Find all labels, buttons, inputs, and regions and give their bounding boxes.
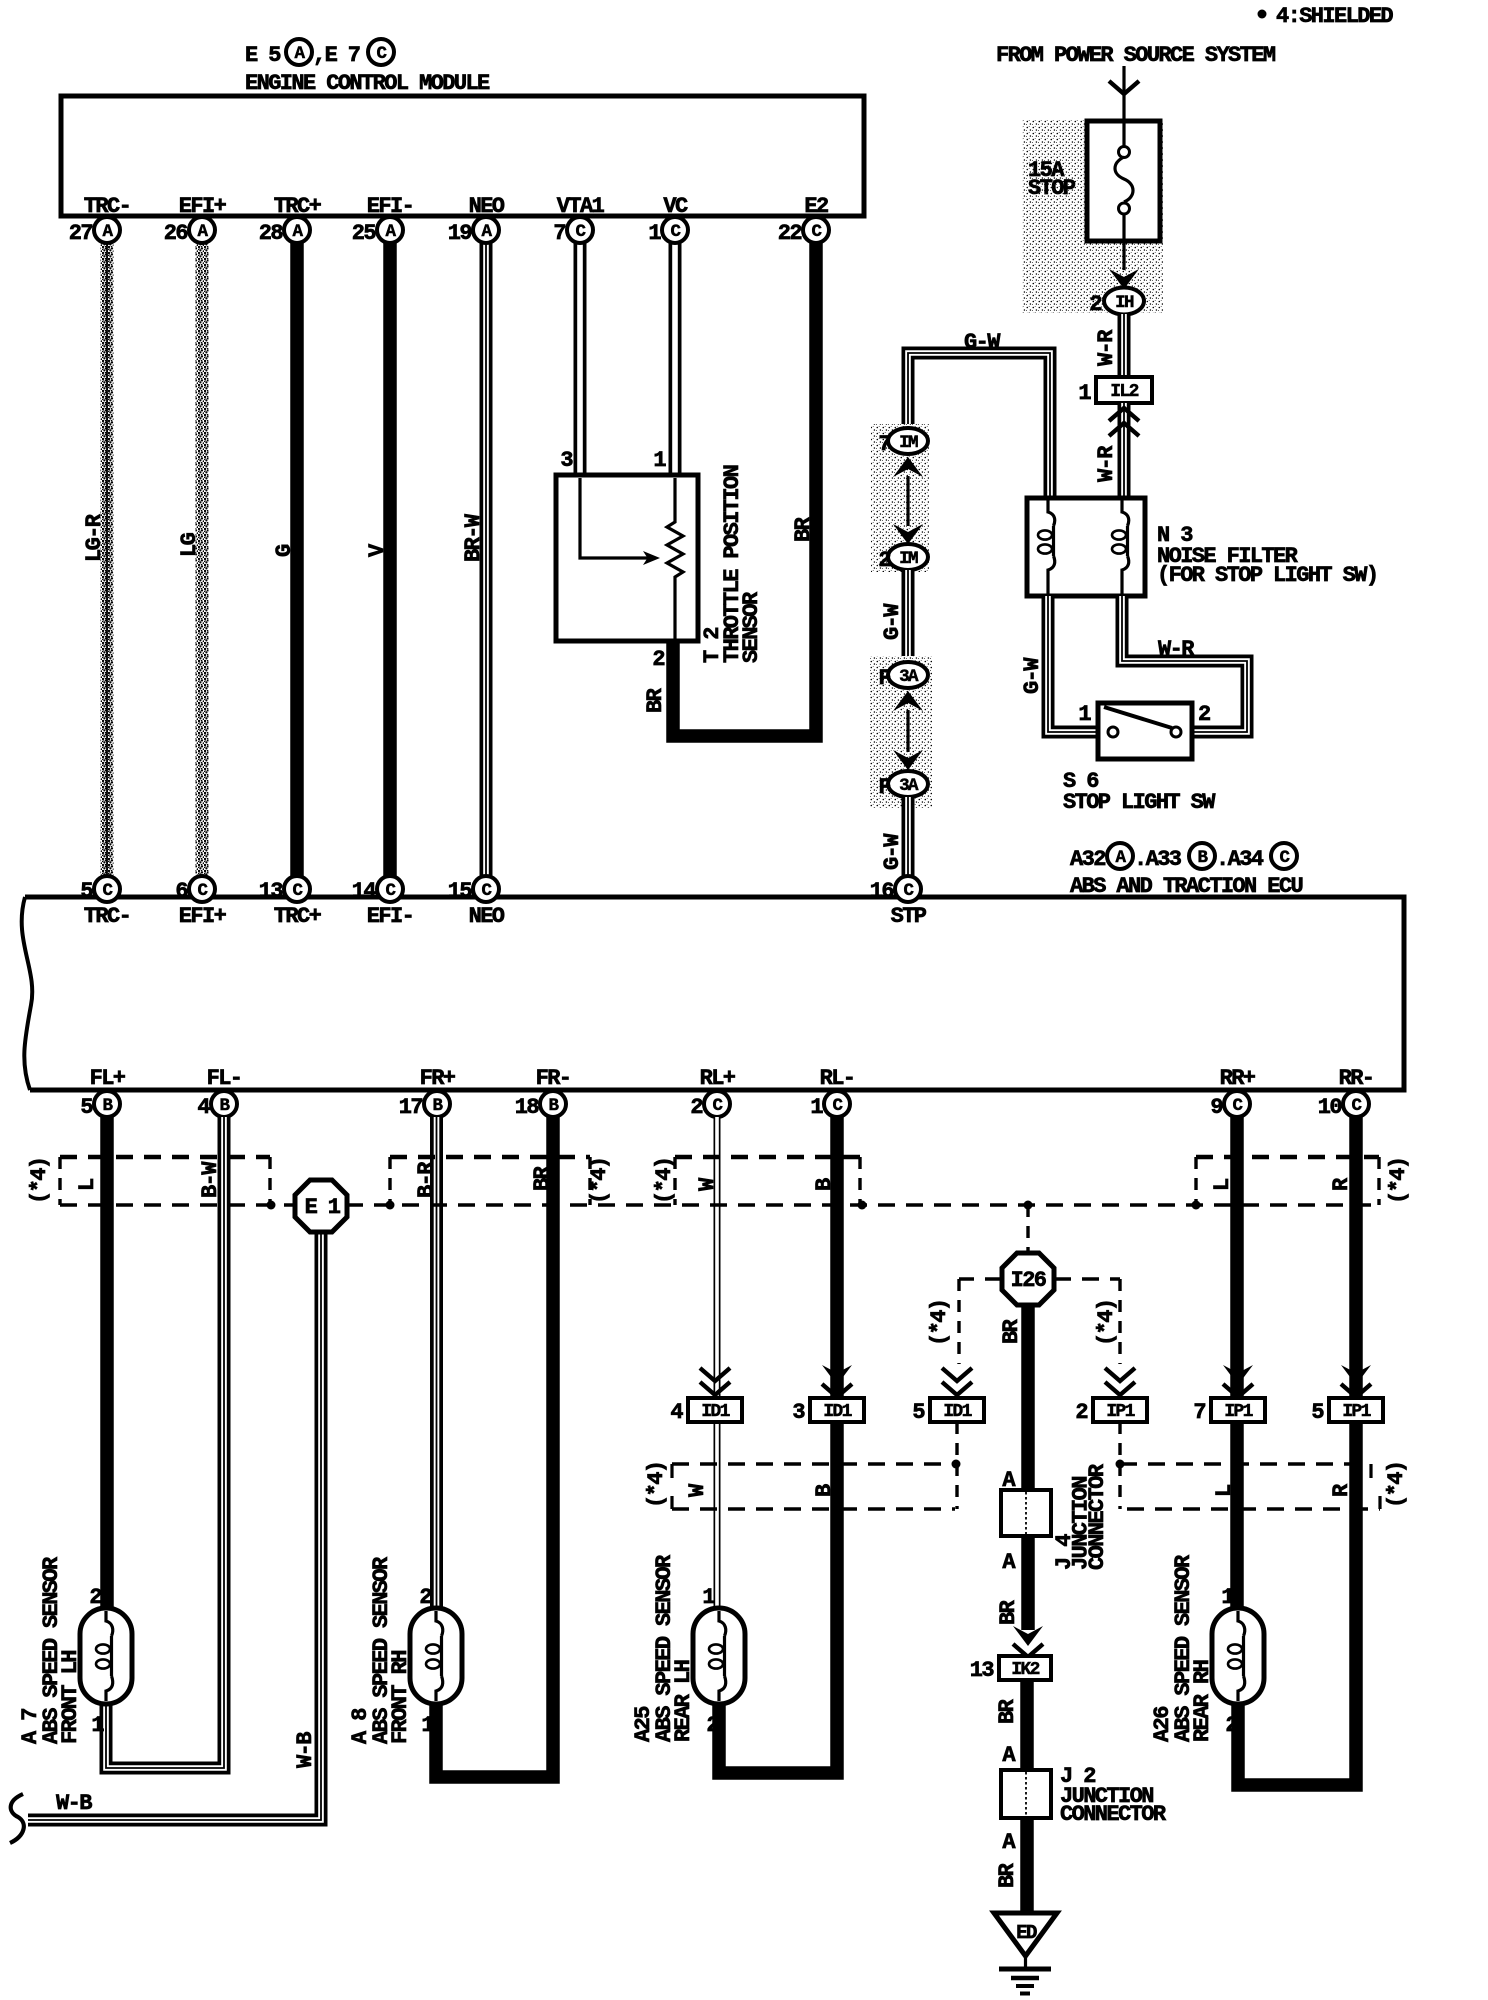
svg-text:LG-R: LG-R bbox=[82, 513, 107, 562]
ABS speed sensor A26 rear RH bbox=[1150, 1554, 1264, 1742]
svg-text:CONNECTOR: CONNECTOR bbox=[1085, 1463, 1110, 1570]
svg-text:BR-W: BR-W bbox=[461, 513, 486, 562]
svg-text:3A: 3A bbox=[899, 776, 919, 796]
svg-text:L: L bbox=[75, 1178, 100, 1191]
wire G-W 3A to STP pin 16 bbox=[880, 797, 908, 878]
svg-text:W-B: W-B bbox=[56, 1791, 92, 1816]
wire TRC- (LG-R halftone) bbox=[82, 236, 114, 878]
shield box (*4) around RL wires bbox=[652, 1157, 860, 1205]
svg-text:I26: I26 bbox=[1011, 1268, 1046, 1293]
junction dot bbox=[1192, 1201, 1201, 1210]
svg-text:RR+: RR+ bbox=[1220, 1066, 1256, 1091]
arrow above 5 IP1 bbox=[1341, 1365, 1371, 1397]
svg-text:2: 2 bbox=[878, 548, 890, 573]
svg-text:1: 1 bbox=[91, 1713, 104, 1738]
svg-text:3A: 3A bbox=[899, 667, 919, 687]
svg-text:.A34: .A34 bbox=[1216, 847, 1264, 872]
ABS ECU header label A32/A33/A34 bbox=[1070, 843, 1302, 899]
ECU top pin 5 C TRC- bbox=[80, 876, 130, 929]
junction dot bbox=[858, 1201, 867, 1210]
ABS speed sensor A7 front LH bbox=[18, 1556, 132, 1744]
svg-text:7: 7 bbox=[553, 221, 565, 246]
ECM pin 22 C E2 bbox=[778, 194, 829, 246]
wire RR- (R) ECU to A26 loop bbox=[1238, 1117, 1356, 1785]
svg-text:STOP LIGHT SW: STOP LIGHT SW bbox=[1063, 790, 1216, 815]
ECU bottom pin FL- 4 B bbox=[197, 1066, 241, 1120]
noise filter N3 box bbox=[1027, 498, 1377, 596]
connector 1 IL2 bbox=[1078, 377, 1152, 406]
svg-text:1: 1 bbox=[810, 1095, 823, 1120]
note 4:SHIELDED bbox=[1258, 4, 1394, 29]
wire BR I26 to J4 bbox=[999, 1305, 1028, 1490]
svg-text:16: 16 bbox=[870, 879, 894, 904]
svg-text:F: F bbox=[878, 666, 890, 691]
svg-text:FL-: FL- bbox=[207, 1066, 242, 1091]
ECU bottom pin RL- 1 C bbox=[810, 1066, 854, 1120]
svg-text:(*4): (*4) bbox=[587, 1158, 612, 1204]
svg-text:BR: BR bbox=[643, 687, 668, 713]
svg-text:STOP: STOP bbox=[1028, 176, 1076, 201]
svg-text:1: 1 bbox=[702, 1585, 715, 1610]
torn end of W-B wire bbox=[10, 1794, 24, 1843]
wire G-W IM to 3A bbox=[880, 570, 908, 663]
svg-text:19: 19 bbox=[448, 221, 472, 246]
svg-text:EFI+: EFI+ bbox=[179, 904, 227, 929]
wire FL+ (L) ECU to A7 bbox=[100, 1117, 114, 1610]
svg-text:W-R: W-R bbox=[1158, 637, 1195, 662]
svg-text:FR-: FR- bbox=[536, 1066, 571, 1091]
wire TRC+ (G) bbox=[272, 236, 297, 878]
wire G-W noise filter to stop light switch pin 1 bbox=[1020, 596, 1098, 732]
svg-text:2: 2 bbox=[1225, 1713, 1237, 1738]
lower shield dashed box left (*4) bbox=[644, 1422, 961, 1509]
svg-text:26: 26 bbox=[164, 221, 188, 246]
svg-text:IP1: IP1 bbox=[1342, 1402, 1371, 1422]
svg-text:(*4): (*4) bbox=[1094, 1300, 1119, 1346]
svg-text:27: 27 bbox=[69, 221, 93, 246]
ECM pin 1 C VC bbox=[648, 194, 688, 246]
connector 2 IP1 bbox=[1075, 1398, 1147, 1425]
ABS and traction ECU box bbox=[22, 897, 1404, 1090]
connector F 3A upper bbox=[878, 662, 928, 691]
N3 right coil bbox=[1122, 500, 1129, 526]
svg-text:3: 3 bbox=[560, 448, 573, 473]
svg-text:ENGINE CONTROL MODULE: ENGINE CONTROL MODULE bbox=[245, 71, 490, 96]
svg-text:ID1: ID1 bbox=[701, 1402, 730, 1422]
wire EFI+ (LG halftone) bbox=[177, 236, 209, 878]
svg-text:15: 15 bbox=[448, 879, 473, 904]
stop light switch S6 bbox=[1063, 702, 1216, 815]
svg-text:G-W: G-W bbox=[880, 833, 905, 870]
svg-text:G: G bbox=[272, 544, 297, 557]
svg-text:25: 25 bbox=[352, 221, 377, 246]
wire BR J4 to IK2 with arrow bbox=[996, 1536, 1043, 1657]
wire EFI- (V) bbox=[365, 236, 390, 878]
svg-text:6: 6 bbox=[175, 879, 187, 904]
shield box (*4) around FR wires bbox=[390, 1157, 612, 1205]
wire BR J2 to ED ground bbox=[995, 1818, 1027, 1911]
svg-text:FL+: FL+ bbox=[90, 1066, 126, 1091]
ECM pin 19 A NEO bbox=[448, 194, 505, 246]
ABS speed sensor A8 front RH bbox=[348, 1556, 462, 1744]
svg-text:18: 18 bbox=[515, 1095, 540, 1120]
svg-text:(*4): (*4) bbox=[27, 1158, 52, 1204]
ABS speed sensor A25 rear LH bbox=[631, 1554, 745, 1742]
svg-text:IM: IM bbox=[899, 433, 918, 453]
svg-text:1: 1 bbox=[1078, 381, 1091, 406]
svg-text:RL+: RL+ bbox=[700, 1066, 736, 1091]
svg-text:FRONT RH: FRONT RH bbox=[388, 1651, 413, 1744]
wire FL- (B-W) ECU to A7 loop bbox=[106, 1117, 224, 1768]
svg-text:2: 2 bbox=[89, 1585, 101, 1610]
svg-text:5: 5 bbox=[80, 1095, 93, 1120]
connector 2 IH bbox=[1089, 288, 1144, 318]
arrow above 3 ID1 bbox=[822, 1365, 852, 1397]
svg-text:BR: BR bbox=[995, 1698, 1020, 1724]
svg-text:A32: A32 bbox=[1070, 847, 1105, 872]
wire from power source with arrow bbox=[1109, 66, 1139, 121]
svg-text:5: 5 bbox=[912, 1400, 925, 1425]
svg-text:2: 2 bbox=[1198, 702, 1210, 727]
svg-text:LG: LG bbox=[177, 532, 202, 557]
svg-text:F: F bbox=[878, 775, 890, 800]
wire W-R IH to IL2 bbox=[1094, 314, 1124, 377]
connector 7 IP1 bbox=[1193, 1398, 1265, 1425]
ECU bottom pin RR+ 9 C bbox=[1210, 1066, 1255, 1120]
wire FR+ (B-R) ECU to A8 bbox=[430, 1117, 443, 1610]
wire fuse to IH connector bbox=[1109, 241, 1139, 289]
svg-text:IP1: IP1 bbox=[1106, 1402, 1135, 1422]
shield dashed from I26 to 2 IP1 bbox=[1054, 1279, 1135, 1395]
connector 5 ID1 bbox=[912, 1398, 984, 1425]
svg-text:RR-: RR- bbox=[1339, 1066, 1374, 1091]
connector 2 IM bbox=[878, 544, 928, 573]
connector 13 IK2 bbox=[970, 1656, 1051, 1683]
svg-text:9: 9 bbox=[1210, 1095, 1222, 1120]
svg-text:FR+: FR+ bbox=[420, 1066, 456, 1091]
wire FR- (BR) ECU to A8 loop bbox=[436, 1117, 553, 1777]
svg-text:10: 10 bbox=[1318, 1095, 1342, 1120]
svg-text:3: 3 bbox=[792, 1400, 805, 1425]
ECU top pin 15 C NEO bbox=[448, 876, 505, 929]
svg-text:(*4): (*4) bbox=[1384, 1462, 1409, 1508]
svg-text:(*4): (*4) bbox=[652, 1158, 677, 1204]
svg-text:B-W: B-W bbox=[198, 1161, 223, 1198]
throttle position sensor T2 box bbox=[556, 448, 764, 663]
svg-text:IL2: IL2 bbox=[1110, 382, 1138, 402]
svg-text:IK2: IK2 bbox=[1011, 1660, 1039, 1680]
stipple region around 15A STOP fuse bbox=[1022, 119, 1163, 313]
stipple region behind IM connectors bbox=[871, 424, 929, 572]
connector 7 IM bbox=[878, 428, 928, 457]
svg-text:13: 13 bbox=[259, 879, 284, 904]
svg-text:FROM POWER SOURCE SYSTEM: FROM POWER SOURCE SYSTEM bbox=[996, 43, 1276, 68]
svg-text:2: 2 bbox=[1075, 1400, 1087, 1425]
svg-text:2: 2 bbox=[706, 1713, 718, 1738]
lower shield dashed box right (*4) bbox=[1116, 1422, 1410, 1509]
arrow above 7 IP1 bbox=[1223, 1365, 1253, 1397]
svg-text:G-W: G-W bbox=[880, 603, 905, 640]
connector pair arrows IM bbox=[893, 457, 923, 544]
svg-text:1: 1 bbox=[653, 448, 666, 473]
svg-text:B-R: B-R bbox=[414, 1161, 439, 1198]
chevrons above 4 ID1 bbox=[700, 1368, 730, 1395]
svg-text:REAR RH: REAR RH bbox=[1190, 1660, 1215, 1742]
svg-text:(FOR STOP LIGHT SW): (FOR STOP LIGHT SW) bbox=[1157, 563, 1377, 588]
svg-text:ID1: ID1 bbox=[823, 1402, 852, 1422]
svg-text:5: 5 bbox=[1311, 1400, 1324, 1425]
svg-text:4: 4 bbox=[197, 1095, 210, 1120]
svg-text:NEO: NEO bbox=[469, 904, 505, 929]
junction dot bbox=[1024, 1201, 1033, 1210]
svg-text:17: 17 bbox=[399, 1095, 423, 1120]
ECM pin 7 C VTA1 bbox=[553, 194, 604, 246]
svg-text:ID1: ID1 bbox=[943, 1402, 972, 1422]
svg-text:BR: BR bbox=[791, 516, 816, 542]
ECU bottom pin FL+ 5 B bbox=[80, 1066, 125, 1120]
svg-text:IH: IH bbox=[1115, 293, 1134, 313]
svg-text:(*4): (*4) bbox=[927, 1300, 952, 1346]
svg-text:L: L bbox=[1212, 1484, 1237, 1497]
wire W-B from E1 ground point bbox=[28, 1232, 321, 1820]
svg-text:.A33: .A33 bbox=[1134, 847, 1182, 872]
svg-text:W-R: W-R bbox=[1094, 329, 1119, 366]
svg-text:13: 13 bbox=[970, 1658, 995, 1683]
svg-text:W-B: W-B bbox=[293, 1732, 318, 1768]
wire RL+ (W) ECU to A25 bbox=[714, 1117, 721, 1610]
svg-text:7: 7 bbox=[878, 432, 890, 457]
ECM pin 25 A EFI- bbox=[352, 194, 413, 246]
svg-text:SENSOR: SENSOR bbox=[739, 591, 764, 663]
svg-text:TRC-: TRC- bbox=[84, 904, 130, 929]
svg-text:REAR LH: REAR LH bbox=[671, 1660, 696, 1742]
wire NEO (BR-W) bbox=[461, 236, 486, 878]
ECM box ENGINE CONTROL MODULE bbox=[61, 96, 864, 216]
svg-text:(*4): (*4) bbox=[644, 1462, 669, 1508]
svg-text:TRC+: TRC+ bbox=[274, 904, 322, 929]
svg-text:2: 2 bbox=[1089, 292, 1101, 317]
junction connector J2 bbox=[1001, 1764, 1167, 1827]
svg-text:IM: IM bbox=[899, 549, 918, 569]
wire RR+ (L) ECU to A26 bbox=[1230, 1117, 1244, 1610]
svg-text:STP: STP bbox=[891, 904, 927, 929]
svg-text:RL-: RL- bbox=[820, 1066, 855, 1091]
ground ED bbox=[994, 1913, 1057, 1994]
stipple region behind 3A connectors bbox=[870, 656, 932, 808]
wire VC (L-R) bbox=[650, 236, 675, 547]
svg-text:4: 4 bbox=[670, 1400, 683, 1425]
svg-text:2: 2 bbox=[652, 647, 664, 672]
fuse 15A STOP bbox=[1028, 121, 1160, 241]
svg-text:E 1: E 1 bbox=[305, 1195, 341, 1220]
ECU top pin 13 C TRC+ bbox=[259, 876, 322, 929]
ECU bottom pin RL+ 2 C bbox=[690, 1066, 735, 1120]
svg-text:B: B bbox=[812, 1484, 837, 1497]
ECU top pin 14 C EFI- bbox=[352, 876, 413, 929]
shield box (*4) around RR wires bbox=[1196, 1157, 1411, 1205]
svg-text:1: 1 bbox=[421, 1713, 434, 1738]
svg-text:4:SHIELDED: 4:SHIELDED bbox=[1276, 4, 1393, 29]
svg-text:28: 28 bbox=[259, 221, 284, 246]
connector F 3A lower bbox=[878, 771, 928, 800]
svg-text:IP1: IP1 bbox=[1224, 1402, 1253, 1422]
svg-text:BR: BR bbox=[999, 1318, 1024, 1344]
svg-text:G-W: G-W bbox=[964, 330, 1001, 355]
shield dashed from I26 to 5 ID1 bbox=[927, 1279, 1002, 1395]
svg-text:G-W: G-W bbox=[1020, 657, 1045, 694]
ECM pin 27 A TRC- bbox=[69, 194, 130, 246]
svg-text:L: L bbox=[1210, 1178, 1235, 1191]
wire E2 (BR) to throttle sensor pin 2 bbox=[643, 236, 816, 736]
ECU top pin 6 C EFI+ bbox=[175, 876, 226, 929]
shield box (*4) around FL wires bbox=[27, 1157, 270, 1205]
wire VTA1 (B-Y) bbox=[555, 236, 580, 547]
svg-text:2: 2 bbox=[419, 1585, 431, 1610]
ground point E1 octagon bbox=[295, 1180, 347, 1232]
wire G-W from STP pin up and over to noise filter bbox=[908, 330, 1050, 498]
wire W-R noise filter to stop light switch pin 2 bbox=[1122, 596, 1247, 732]
svg-text:FRONT LH: FRONT LH bbox=[58, 1651, 83, 1744]
svg-text:W-R: W-R bbox=[1094, 445, 1119, 482]
svg-text:ED: ED bbox=[1016, 1922, 1037, 1944]
N3 left coil bbox=[1048, 500, 1055, 526]
ECU bottom pin FR- 18 B bbox=[515, 1066, 571, 1120]
junction connector J4 bbox=[1001, 1463, 1110, 1575]
svg-text:B: B bbox=[812, 1178, 837, 1191]
svg-text:1: 1 bbox=[648, 221, 661, 246]
ECM pin 28 A TRC+ bbox=[259, 194, 322, 246]
wire W-R IL2 to noise filter with chevrons bbox=[1094, 403, 1139, 498]
connector I26 octagon bbox=[1002, 1205, 1054, 1305]
junction dot bbox=[386, 1201, 395, 1210]
svg-text:,E 7: ,E 7 bbox=[313, 43, 360, 68]
svg-text:BR: BR bbox=[530, 1165, 555, 1191]
svg-text:5: 5 bbox=[80, 879, 93, 904]
svg-text:(*4): (*4) bbox=[1386, 1158, 1411, 1204]
shield drain dashed bus to E1 and I26 bbox=[60, 1203, 1379, 1206]
T2 internal wiper line from pin 3 bbox=[580, 478, 648, 558]
ECU top pin 16 C STP bbox=[870, 876, 927, 929]
wire RL- (B) ECU to A25 loop bbox=[719, 1117, 837, 1773]
svg-text:1: 1 bbox=[1221, 1585, 1234, 1610]
wire BR IK2 to J2 bbox=[995, 1680, 1027, 1770]
ECU bottom pin FR+ 17 B bbox=[399, 1066, 456, 1120]
T2 internal potentiometer resistor bbox=[667, 478, 683, 641]
svg-text:E 5: E 5 bbox=[245, 43, 281, 68]
svg-text:BR: BR bbox=[995, 1862, 1020, 1888]
svg-text:EFI-: EFI- bbox=[367, 904, 413, 929]
svg-text:BR: BR bbox=[996, 1599, 1021, 1625]
ECM header label E5/E7 bbox=[245, 39, 490, 96]
connector 5 IP1 bbox=[1311, 1398, 1383, 1425]
svg-text:14: 14 bbox=[352, 879, 377, 904]
ECM pin 26 A EFI+ bbox=[164, 194, 227, 246]
connector pair arrows 3A bbox=[893, 691, 923, 770]
ECU bottom pin RR- 10 C bbox=[1318, 1066, 1374, 1120]
svg-text:2: 2 bbox=[690, 1095, 702, 1120]
svg-text:1: 1 bbox=[1078, 702, 1091, 727]
connector 4 ID1 bbox=[670, 1398, 742, 1425]
svg-text:7: 7 bbox=[1193, 1400, 1205, 1425]
junction dot bbox=[267, 1201, 276, 1210]
svg-text:22: 22 bbox=[778, 221, 802, 246]
connector 3 ID1 bbox=[792, 1398, 864, 1425]
svg-text:CONNECTOR: CONNECTOR bbox=[1060, 1802, 1167, 1827]
